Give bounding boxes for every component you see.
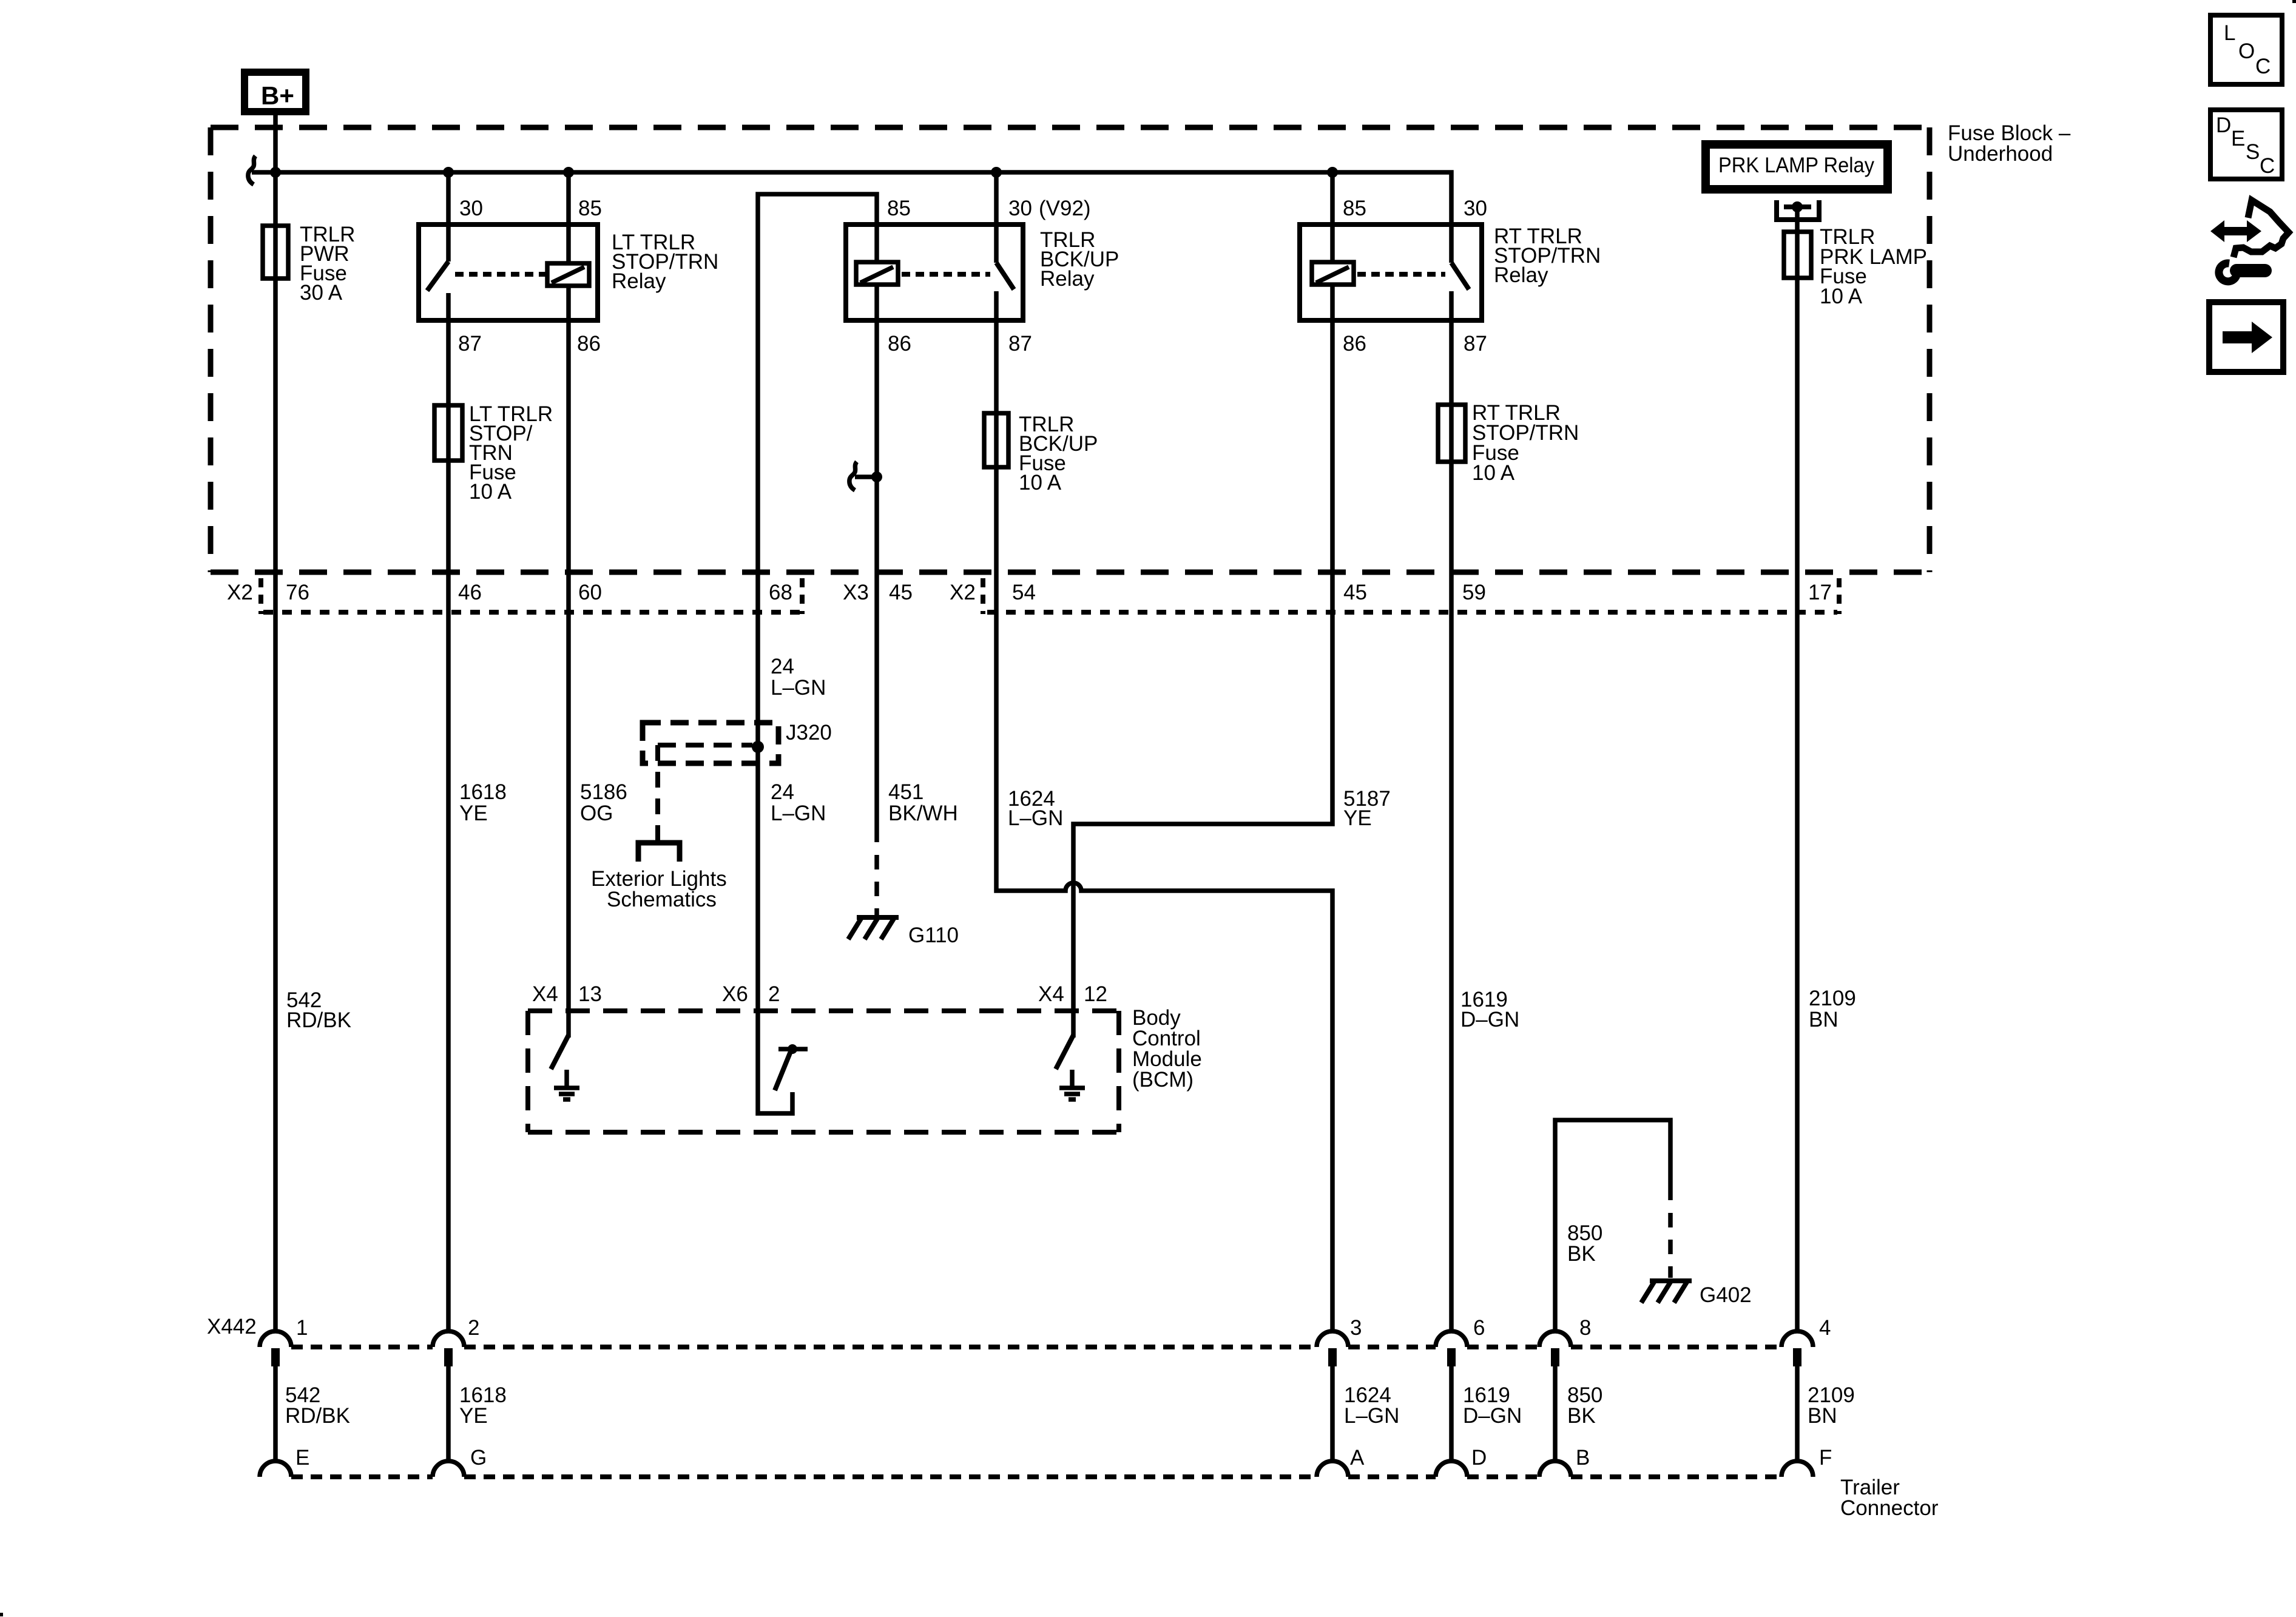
svg-text:68: 68: [769, 581, 792, 604]
label: wire 1619 D-GN (bottom): [1463, 1383, 1522, 1428]
icon: LOC reference box: [2210, 15, 2282, 84]
connector strip separator after pin 68: [800, 578, 805, 614]
BCM pin13 internal ground: [554, 1070, 579, 1099]
svg-text:X2: X2: [227, 581, 253, 604]
fuse F5: TRLR PRK LAMP Fuse 10 A: [1784, 232, 1811, 278]
clip splice on wire 451: [849, 462, 882, 490]
relay1 switch input wire (pin 30): [446, 172, 451, 262]
junction: bus/relay3 pin85: [1327, 167, 1338, 178]
relay3 coil wire pin 86: [1330, 285, 1335, 320]
wire 542 RD/BK: bus to connector X442-1: [273, 172, 278, 1331]
label: wire 2109 BN (mid): [1809, 987, 1856, 1031]
X442 pin 6 terminal: [1436, 1331, 1467, 1366]
svg-text:Connector: Connector: [1840, 1496, 1939, 1520]
junction block J320: [643, 723, 778, 763]
relay2 actuator dashed link: [902, 272, 990, 277]
svg-text:6: 6: [1473, 1316, 1485, 1340]
wire 1619 D-GN: relay3-87 via fuse to X442-6: [1449, 320, 1454, 1331]
svg-text:1: 1: [296, 1316, 308, 1340]
trailer pin E terminal: [260, 1461, 291, 1477]
svg-text:E: E: [2231, 127, 2245, 150]
svg-text:10 A: 10 A: [469, 480, 512, 504]
svg-text:B: B: [1576, 1446, 1590, 1470]
off-page connector bracket (Exterior Lights): [638, 843, 680, 862]
svg-text:13: 13: [578, 982, 602, 1006]
X442 pin 3 terminal: [1317, 1331, 1348, 1366]
connector strip separator after X2: [258, 578, 263, 614]
svg-text:X2: X2: [950, 581, 976, 604]
svg-text:Underhood: Underhood: [1948, 142, 2053, 166]
relay3 coil: [1312, 262, 1354, 285]
label: Fuse Block - Underhood: [1948, 121, 2071, 166]
ground G402: [1641, 1281, 1692, 1303]
relay K2: TRLR BCK/UP Relay box: [846, 224, 1023, 320]
icon: DESC reference box: [2210, 110, 2282, 179]
fuse block underhood dashed boundary: [211, 127, 1930, 572]
svg-text:60: 60: [578, 581, 602, 604]
svg-text:Relay: Relay: [1494, 263, 1548, 287]
svg-text:10 A: 10 A: [1472, 461, 1515, 485]
fuse F2: LT TRLR STOP/TRN Fuse 10 A: [434, 405, 462, 461]
wire 5186 OG: relay1-86 to BCM X4-13: [566, 320, 571, 1011]
label: RT TRLR STOP/TRN Fuse 10 A: [1472, 401, 1579, 485]
svg-text:BN: BN: [1808, 1404, 1837, 1428]
label: wire 850 BK (bottom): [1567, 1383, 1602, 1428]
relay1 coil: [547, 263, 589, 286]
relay3 switch input wire (pin 30): [1449, 224, 1454, 263]
label: wire 2109 BN (bottom): [1808, 1383, 1855, 1428]
svg-text:PRK LAMP Relay: PRK LAMP Relay: [1718, 154, 1874, 177]
svg-text:8: 8: [1579, 1316, 1591, 1340]
svg-text:E: E: [295, 1446, 309, 1470]
svg-text:RD/BK: RD/BK: [286, 1008, 351, 1032]
svg-text:30: 30: [1008, 197, 1032, 220]
wire 542 RD/BK: X442-1 to trailer E: [273, 1366, 278, 1461]
svg-text:87: 87: [1008, 332, 1032, 356]
relay2 switch stub to pin 87: [994, 291, 999, 320]
fuse F1: TRLR PWR Fuse 30 A: [263, 226, 288, 279]
label: wire 1619 D-GN (mid): [1460, 988, 1519, 1031]
junction: bus/relay1 pin85: [563, 167, 574, 178]
relay1 actuator dashed link: [455, 272, 547, 277]
label: wire 1618 YE: [459, 780, 507, 825]
label: TRLR PRK LAMP Fuse 10 A: [1820, 225, 1927, 308]
relay2 switch arm: [996, 263, 1014, 289]
svg-text:30: 30: [1464, 197, 1487, 220]
svg-text:S: S: [2246, 140, 2260, 164]
svg-text:451: 451: [888, 780, 923, 804]
label: wire 1624 L-GN (bottom): [1344, 1383, 1399, 1428]
svg-text:24: 24: [771, 780, 794, 804]
page corner mark bottom left: [0, 1613, 3, 1616]
svg-text:76: 76: [286, 581, 309, 604]
wire 850 BK: X442-8 to trailer B: [1553, 1366, 1558, 1461]
relay3 actuator dashed link: [1357, 272, 1445, 277]
label: wire 24 L-GN (lower): [771, 780, 826, 825]
wire 1619 D-GN: X442-6 to trailer D: [1449, 1366, 1454, 1461]
svg-text:YE: YE: [1343, 806, 1372, 830]
svg-text:BN: BN: [1809, 1008, 1838, 1031]
X442 pin 8 terminal: [1539, 1331, 1571, 1366]
svg-text:BK: BK: [1567, 1242, 1596, 1266]
svg-text:G402: G402: [1700, 1283, 1752, 1307]
svg-text:L–GN: L–GN: [1344, 1404, 1399, 1428]
svg-text:L–GN: L–GN: [1008, 806, 1063, 830]
svg-text:2: 2: [468, 1316, 479, 1340]
svg-text:OG: OG: [580, 802, 613, 825]
clip symbol at bus left end: [248, 156, 255, 184]
svg-text:O: O: [2238, 39, 2255, 63]
svg-text:12: 12: [1084, 982, 1107, 1006]
svg-text:C: C: [2260, 154, 2275, 178]
svg-text:86: 86: [888, 332, 911, 356]
connector strip lower edge (right section): [987, 610, 1837, 615]
fuse F3: TRLR BCK/UP Fuse 10 A: [984, 413, 1008, 467]
connector strip lower edge (left section): [263, 610, 800, 615]
junction: B+/bus: [270, 167, 281, 178]
fuse F4: RT TRLR STOP/TRN Fuse 10 A: [1438, 405, 1465, 462]
svg-text:4: 4: [1819, 1316, 1831, 1340]
svg-text:X6: X6: [722, 982, 748, 1006]
svg-text:24: 24: [771, 655, 794, 678]
svg-text:X4: X4: [1038, 982, 1064, 1006]
svg-text:Schematics: Schematics: [607, 888, 717, 911]
wire 850 BK: X442-8 loop to G402: [1555, 1120, 1670, 1331]
svg-text:YE: YE: [459, 1404, 488, 1428]
wire 1624 L-GN: relay2-87 via fuse to X442-3 (hops over 5187): [996, 320, 1332, 1331]
trailer pin F terminal: [1781, 1461, 1813, 1477]
label: Exterior Lights Schematics: [591, 867, 727, 911]
svg-text:BK: BK: [1567, 1404, 1596, 1428]
svg-text:L: L: [2224, 21, 2235, 45]
svg-text:BK/WH: BK/WH: [888, 802, 958, 825]
label: wire 5187 YE: [1343, 787, 1391, 830]
trailer pin G terminal: [433, 1461, 464, 1477]
module box: Body Control Module (BCM): [528, 1011, 1119, 1132]
label: LT TRLR STOP/TRN Fuse 10 A: [469, 402, 553, 504]
junction: bus/relay1 pin30: [443, 167, 454, 178]
label: TRLR PWR Fuse 30 A: [300, 223, 355, 305]
svg-text:C: C: [2255, 55, 2271, 78]
svg-text:(V92): (V92): [1039, 197, 1091, 220]
label: wire 5186 OG: [580, 780, 627, 825]
svg-text:85: 85: [887, 197, 911, 220]
label: LT TRLR STOP/TRN Relay: [612, 231, 718, 293]
callout box: PRK LAMP Relay: [1706, 144, 1888, 189]
svg-text:X4: X4: [532, 982, 558, 1006]
svg-text:D–GN: D–GN: [1463, 1404, 1522, 1428]
svg-text:54: 54: [1012, 581, 1036, 604]
svg-text:G: G: [470, 1446, 487, 1470]
connector X442 dashed line: [291, 1345, 1781, 1349]
svg-text:Relay: Relay: [1040, 267, 1095, 291]
svg-text:D: D: [2216, 113, 2231, 137]
bus wire (B+ feed rail): [252, 172, 1451, 224]
wire 1618 YE: X442-2 to trailer G: [446, 1366, 451, 1461]
svg-text:87: 87: [1464, 332, 1487, 356]
wire 2109 BN: PRK LAMP relay to X442-4: [1795, 207, 1800, 1331]
junction: bus/relay2 pin30: [991, 167, 1002, 178]
wire 451 BK/WH: relay2-86 down to G110: [874, 320, 879, 915]
svg-text:X442: X442: [207, 1315, 257, 1338]
svg-text:(BCM): (BCM): [1132, 1068, 1194, 1092]
label: TRLR BCK/UP Relay: [1040, 228, 1119, 291]
label: TRLR BCK/UP Fuse 10 A: [1019, 413, 1098, 495]
relay1 switch stub to pin 87: [446, 293, 451, 320]
junction dot J320: [752, 741, 764, 753]
svg-text:2: 2: [768, 982, 780, 1006]
relay2 coil: [856, 262, 898, 285]
label: wire 542 RD/BK (mid): [286, 988, 351, 1032]
X442 pin 1 terminal: [260, 1331, 291, 1366]
svg-text:86: 86: [577, 332, 601, 356]
svg-text:L–GN: L–GN: [771, 802, 826, 825]
trailer connector dashed line: [291, 1474, 1781, 1479]
trailer pin A terminal: [1317, 1461, 1348, 1477]
svg-text:59: 59: [1462, 581, 1486, 604]
svg-text:J320: J320: [786, 721, 832, 744]
svg-text:10 A: 10 A: [1019, 471, 1062, 495]
svg-text:3: 3: [1350, 1316, 1362, 1340]
relay2 switch input wire (pin 30): [994, 172, 999, 263]
relay3 switch arm: [1451, 263, 1469, 289]
BCM pin13 internal switch: [551, 1011, 569, 1069]
svg-text:45: 45: [1343, 581, 1367, 604]
svg-text:B+: B+: [261, 81, 294, 110]
wire: B+ feed to bus: [273, 115, 278, 172]
relay3 coil wire pin 85: [1330, 172, 1335, 262]
svg-text:10 A: 10 A: [1820, 285, 1863, 308]
svg-text:85: 85: [1343, 197, 1366, 220]
trailer pin D terminal: [1436, 1461, 1467, 1477]
svg-text:30 A: 30 A: [300, 281, 343, 305]
label: wire 1618 YE (bottom): [459, 1383, 507, 1428]
power symbol B+: [245, 72, 306, 112]
connector strip separator after pin 17: [1837, 578, 1842, 614]
svg-text:A: A: [1350, 1446, 1365, 1470]
svg-text:G110: G110: [908, 923, 959, 947]
label: Body Control Module (BCM): [1132, 1006, 1202, 1092]
X442 pin 4 terminal: [1781, 1331, 1813, 1366]
icon: forward arrow box: [2209, 302, 2283, 372]
svg-text:F: F: [1819, 1446, 1832, 1470]
dashed branch from J320 to off-page bracket: [655, 745, 660, 849]
label: RT TRLR STOP/TRN Relay: [1494, 224, 1601, 287]
relay1 coil wire pin 86: [566, 286, 571, 320]
relay2 coil wire pin 86: [874, 285, 879, 320]
svg-text:X3: X3: [843, 581, 869, 604]
label: Trailer Connector: [1840, 1476, 1939, 1520]
svg-text:D: D: [1471, 1446, 1487, 1470]
relay output terminal under PRK LAMP Relay: [1777, 200, 1819, 220]
relay1 coil wire pin 85: [566, 172, 571, 263]
svg-text:87: 87: [458, 332, 482, 356]
wire 1624 L-GN: X442-3 to trailer A: [1330, 1366, 1335, 1461]
BCM pin12 internal ground: [1059, 1070, 1085, 1099]
svg-text:YE: YE: [459, 802, 488, 825]
label: wire 451 BK/WH: [888, 780, 958, 825]
svg-text:1618: 1618: [459, 780, 507, 804]
BCM pin2 internal switch: [758, 1011, 808, 1113]
wire 5187 YE: relay3-86 to BCM X4-12: [1073, 320, 1332, 1011]
wire 24 L-GN: relay2 pin85 loop down to BCM X6-2: [758, 194, 877, 1011]
X442 pin 2 terminal: [433, 1331, 464, 1366]
label: wire 1624 L-GN: [1008, 787, 1063, 830]
connector strip separator after second X2: [981, 578, 985, 614]
svg-text:Relay: Relay: [612, 269, 666, 293]
label: wire 542 RD/BK (bottom): [285, 1383, 350, 1428]
svg-text:30: 30: [459, 197, 483, 220]
svg-text:5186: 5186: [580, 780, 627, 804]
ground G110: [848, 917, 899, 939]
page corner mark top right: [2292, 0, 2296, 3]
svg-text:45: 45: [889, 581, 913, 604]
relay K3: RT TRLR STOP/TRN Relay box: [1300, 224, 1482, 320]
svg-text:85: 85: [578, 197, 602, 220]
svg-text:L–GN: L–GN: [771, 676, 826, 700]
icon: diagnostic tool (arrows and wrench): [2210, 200, 2289, 282]
wire 2109 BN: X442-4 to trailer F: [1795, 1366, 1800, 1461]
label: wire 850 BK (upper): [1567, 1221, 1602, 1266]
svg-text:46: 46: [458, 581, 482, 604]
label: wire 24 L-GN (above J320): [771, 655, 826, 700]
svg-text:RD/BK: RD/BK: [285, 1404, 350, 1428]
relay K1: LT TRLR STOP/TRN Relay box: [419, 224, 598, 320]
svg-text:2109: 2109: [1809, 987, 1856, 1010]
svg-text:17: 17: [1808, 581, 1832, 604]
wire 1618 YE: relay1-87 to X442-2: [446, 320, 451, 1331]
svg-text:D–GN: D–GN: [1460, 1008, 1519, 1031]
relay3 switch stub to pin 87: [1449, 291, 1454, 320]
trailer pin B terminal: [1539, 1461, 1571, 1477]
relay1 switch arm: [427, 262, 448, 291]
svg-text:86: 86: [1343, 332, 1366, 356]
BCM pin12 internal switch: [1056, 1011, 1073, 1069]
